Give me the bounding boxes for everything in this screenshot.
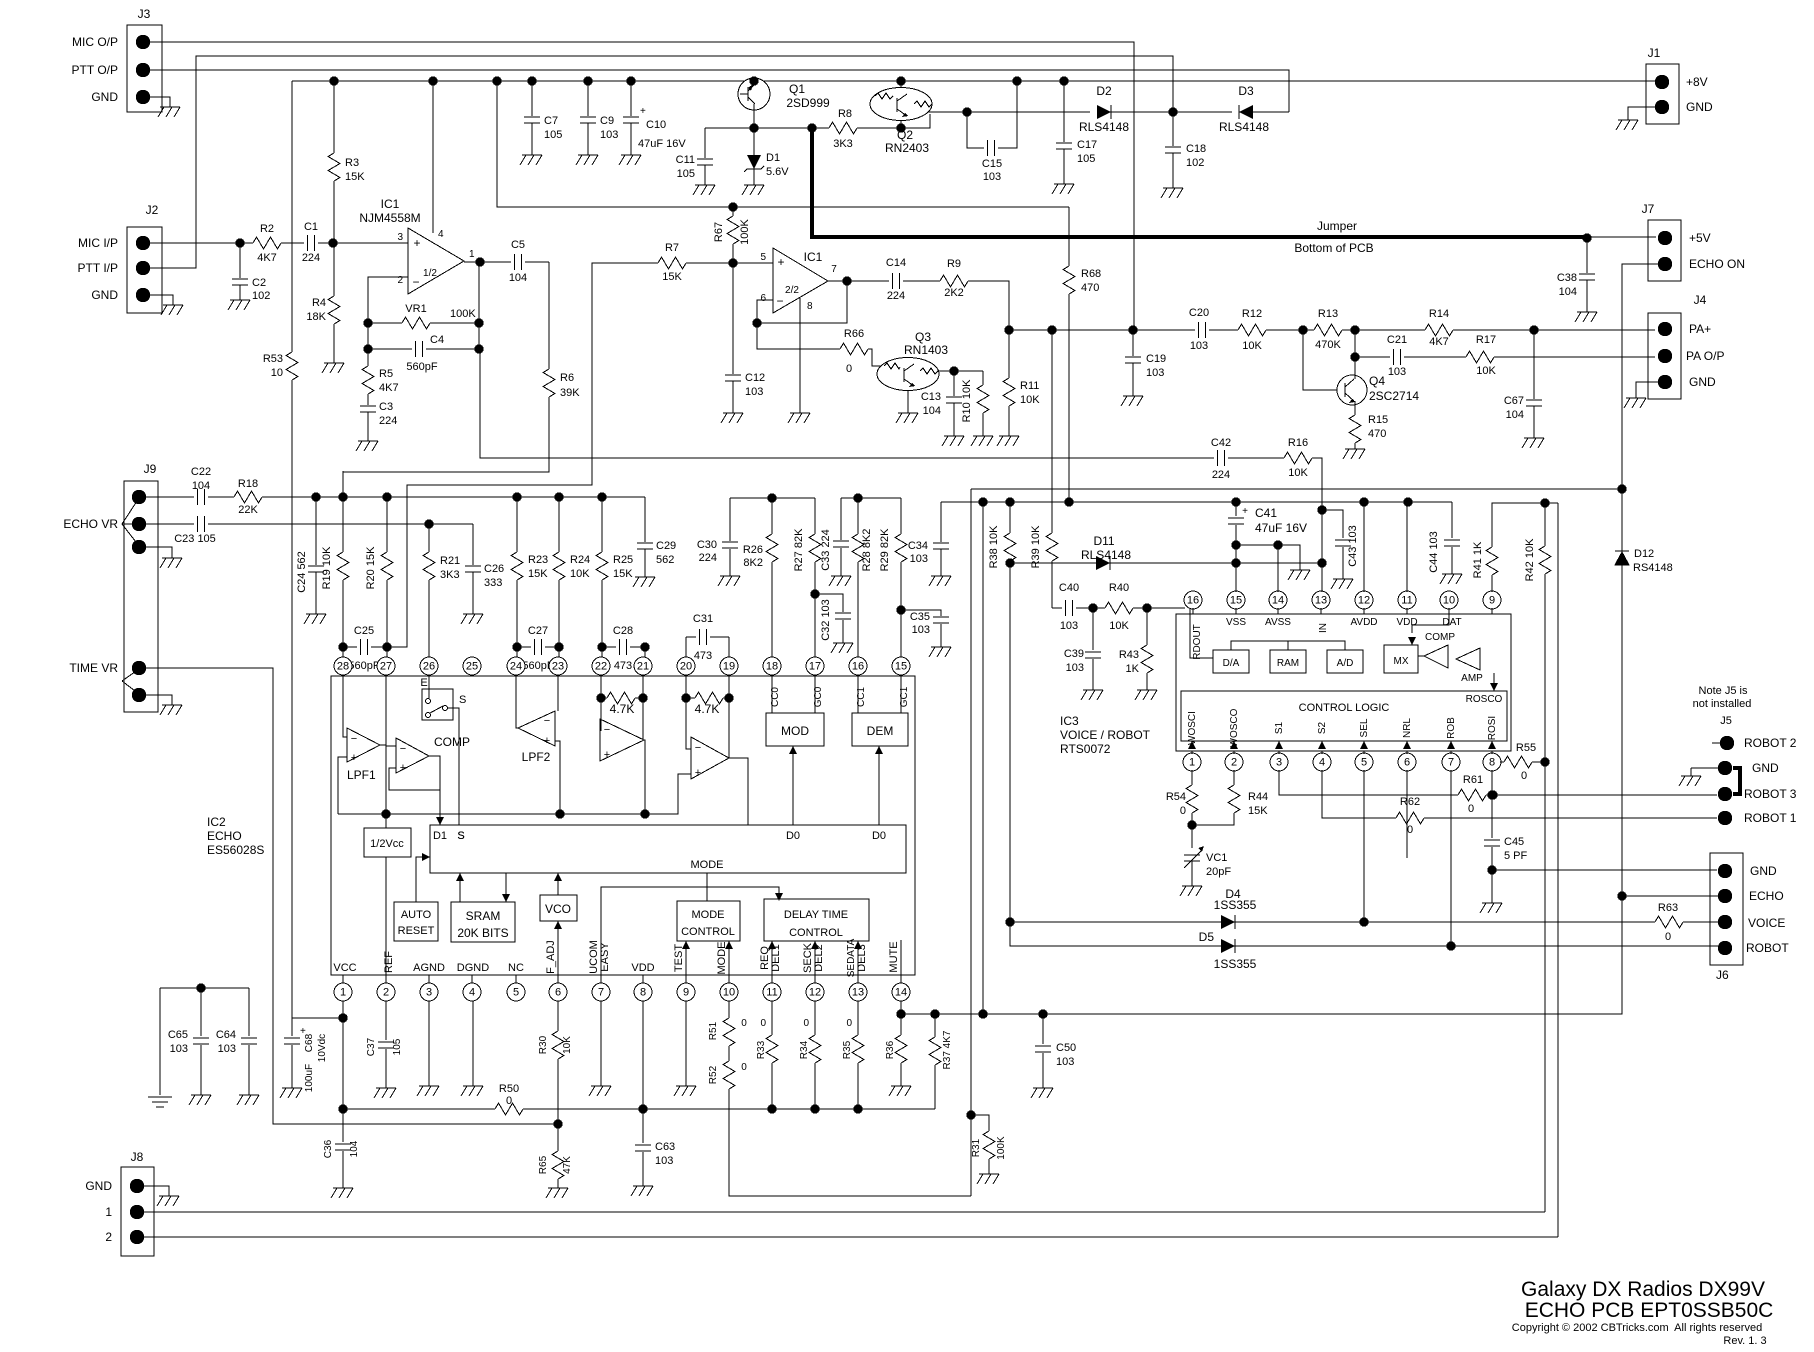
svg-text:C5: C5 [511, 239, 525, 251]
svg-text:R14: R14 [1429, 308, 1449, 320]
svg-text:104: 104 [509, 272, 527, 284]
svg-text:R34: R34 [799, 1040, 810, 1059]
svg-text:0: 0 [741, 1062, 747, 1073]
svg-text:−: − [695, 742, 701, 754]
svg-text:REF: REF [383, 951, 395, 973]
svg-text:R66: R66 [844, 328, 864, 340]
svg-text:224: 224 [699, 552, 717, 564]
svg-text:105: 105 [392, 1038, 403, 1055]
svg-text:ROBOT 2: ROBOT 2 [1744, 736, 1797, 750]
svg-text:R53: R53 [263, 353, 283, 365]
svg-text:Galaxy DX Radios DX99V: Galaxy DX Radios DX99V [1521, 1278, 1765, 1301]
svg-text:C18: C18 [1186, 143, 1206, 155]
svg-text:AUTO: AUTO [401, 909, 432, 921]
svg-text:MODE: MODE [692, 909, 725, 921]
svg-text:R11: R11 [1020, 380, 1039, 392]
svg-text:224: 224 [379, 415, 397, 427]
svg-text:S: S [457, 830, 464, 842]
svg-text:C27: C27 [528, 625, 548, 637]
svg-text:C32 103: C32 103 [820, 599, 832, 641]
svg-text:J9: J9 [144, 462, 157, 476]
svg-text:R17: R17 [1476, 334, 1496, 346]
svg-text:2SD999: 2SD999 [786, 96, 830, 110]
svg-text:R9: R9 [947, 258, 961, 270]
svg-text:SEL: SEL [1359, 718, 1370, 737]
svg-text:VDD: VDD [631, 962, 654, 974]
svg-text:102: 102 [1186, 157, 1204, 169]
svg-text:Rev. 1. 3: Rev. 1. 3 [1723, 1335, 1766, 1347]
svg-text:RAM: RAM [1277, 658, 1299, 669]
svg-text:R23: R23 [528, 554, 548, 566]
svg-text:0: 0 [1521, 770, 1527, 782]
svg-text:100K: 100K [450, 308, 476, 320]
svg-text:C3: C3 [379, 401, 393, 413]
svg-text:5 PF: 5 PF [1504, 850, 1528, 862]
svg-text:1: 1 [340, 987, 346, 999]
svg-text:R24: R24 [570, 554, 590, 566]
svg-text:C13: C13 [921, 391, 941, 403]
svg-text:C68: C68 [304, 1033, 315, 1052]
svg-text:AGND: AGND [413, 962, 445, 974]
svg-text:C2: C2 [252, 277, 266, 289]
svg-text:1/2: 1/2 [423, 268, 437, 279]
svg-text:224: 224 [1212, 469, 1230, 481]
svg-text:J2: J2 [146, 203, 159, 217]
svg-text:C33 224: C33 224 [820, 529, 832, 571]
svg-text:DGND: DGND [457, 962, 489, 974]
svg-text:R62: R62 [1400, 796, 1420, 808]
svg-text:R50: R50 [499, 1083, 519, 1095]
svg-text:RTS0072: RTS0072 [1060, 742, 1111, 756]
svg-text:C21: C21 [1387, 334, 1407, 346]
svg-text:R20 15K: R20 15K [365, 546, 377, 589]
svg-text:J6: J6 [1716, 968, 1729, 982]
svg-text:2: 2 [105, 1230, 112, 1244]
svg-text:103: 103 [1146, 367, 1164, 379]
svg-text:RN2403: RN2403 [885, 141, 929, 155]
svg-text:100K: 100K [996, 1136, 1007, 1160]
svg-text:J5: J5 [1720, 715, 1732, 727]
svg-text:103: 103 [655, 1155, 673, 1167]
svg-text:−: − [412, 275, 419, 289]
svg-text:C39: C39 [1064, 648, 1084, 660]
svg-text:R51: R51 [708, 1021, 719, 1040]
svg-text:105: 105 [1077, 153, 1095, 165]
svg-text:IN: IN [1318, 623, 1329, 633]
svg-text:+: + [351, 752, 357, 764]
svg-text:VSS: VSS [1226, 617, 1246, 628]
svg-text:D12: D12 [1634, 548, 1654, 560]
svg-text:ECHO ON: ECHO ON [1689, 257, 1745, 271]
svg-text:20pF: 20pF [1206, 866, 1231, 878]
svg-text:J3: J3 [138, 7, 151, 21]
svg-text:Q1: Q1 [789, 82, 805, 96]
svg-text:CC1: CC1 [856, 687, 867, 707]
svg-text:Jumper: Jumper [1317, 219, 1357, 233]
svg-text:7: 7 [598, 987, 604, 999]
svg-text:C10: C10 [646, 119, 666, 131]
svg-text:39K: 39K [560, 387, 580, 399]
svg-text:−: − [351, 733, 357, 745]
svg-text:22: 22 [595, 661, 607, 673]
svg-text:−: − [604, 724, 610, 736]
svg-text:100K: 100K [739, 218, 751, 244]
svg-text:102: 102 [252, 290, 270, 302]
svg-text:3K3: 3K3 [440, 569, 460, 581]
svg-text:S1: S1 [1274, 721, 1285, 734]
svg-text:3: 3 [397, 232, 403, 243]
svg-text:R38 10K: R38 10K [988, 525, 1000, 568]
svg-text:C26: C26 [484, 563, 504, 575]
svg-text:R41 1K: R41 1K [1472, 541, 1484, 578]
svg-text:R16: R16 [1288, 437, 1308, 449]
svg-text:103: 103 [218, 1043, 236, 1055]
svg-text:C44 103: C44 103 [1428, 531, 1440, 573]
svg-text:21: 21 [637, 661, 649, 673]
svg-text:C36: C36 [323, 1139, 334, 1158]
svg-text:0: 0 [846, 1018, 852, 1029]
svg-text:1/2Vcc: 1/2Vcc [370, 838, 404, 850]
svg-text:R61: R61 [1463, 774, 1483, 786]
svg-text:10K: 10K [1020, 394, 1040, 406]
svg-text:VCC: VCC [333, 962, 356, 974]
svg-text:22K: 22K [238, 504, 258, 516]
svg-text:MIC I/P: MIC I/P [78, 236, 118, 250]
svg-text:C35: C35 [910, 611, 930, 623]
svg-text:RLS4148: RLS4148 [1081, 548, 1131, 562]
svg-text:R68: R68 [1081, 268, 1101, 280]
svg-text:0: 0 [846, 363, 852, 375]
svg-text:10: 10 [723, 987, 735, 999]
svg-text:ECHO: ECHO [1749, 889, 1784, 903]
svg-text:562: 562 [656, 554, 674, 566]
svg-text:CC0: CC0 [770, 687, 781, 707]
svg-text:R15: R15 [1368, 414, 1388, 426]
svg-text:10K: 10K [1109, 620, 1129, 632]
svg-text:ROBOT: ROBOT [1746, 941, 1789, 955]
svg-text:16: 16 [852, 661, 864, 673]
svg-text:NRL: NRL [1402, 718, 1413, 738]
svg-text:ROSI: ROSI [1487, 716, 1498, 740]
svg-text:A/D: A/D [1337, 658, 1354, 669]
svg-text:−: − [400, 743, 406, 755]
svg-text:R3: R3 [345, 157, 359, 169]
svg-text:8: 8 [807, 301, 813, 312]
svg-text:MOD: MOD [781, 724, 809, 738]
svg-text:104: 104 [923, 405, 941, 417]
svg-text:4: 4 [438, 229, 444, 240]
svg-text:1K: 1K [1126, 663, 1140, 675]
svg-text:5: 5 [513, 987, 519, 999]
svg-text:MUTE: MUTE [888, 941, 900, 972]
svg-text:PTT O/P: PTT O/P [72, 63, 118, 77]
svg-text:RLS4148: RLS4148 [1219, 120, 1269, 134]
svg-text:GC1: GC1 [899, 686, 910, 707]
svg-text:11: 11 [766, 987, 777, 999]
svg-text:R40: R40 [1109, 582, 1129, 594]
svg-text:103: 103 [1190, 340, 1208, 352]
svg-text:470K: 470K [1315, 339, 1341, 351]
svg-text:8K2: 8K2 [743, 557, 763, 569]
svg-text:RESET: RESET [398, 925, 435, 937]
svg-text:Copyright © 2002 CBTricks.com: Copyright © 2002 CBTricks.com All rights… [1512, 1322, 1762, 1334]
svg-text:C40: C40 [1059, 582, 1079, 594]
svg-text:GND: GND [1689, 375, 1716, 389]
svg-text:ECHO: ECHO [207, 829, 242, 843]
svg-text:R29 82K: R29 82K [879, 528, 891, 571]
svg-text:0: 0 [741, 1018, 747, 1029]
svg-text:MODE: MODE [716, 942, 728, 975]
svg-text:15K: 15K [345, 171, 365, 183]
svg-text:R28 8K2: R28 8K2 [861, 529, 873, 572]
svg-text:104: 104 [1506, 409, 1524, 421]
svg-text:C42: C42 [1211, 437, 1231, 449]
svg-text:IC1: IC1 [804, 250, 823, 264]
svg-text:R12: R12 [1242, 308, 1262, 320]
svg-text:not installed: not installed [1693, 698, 1752, 710]
svg-text:C43 103: C43 103 [1347, 525, 1359, 567]
svg-text:GND: GND [91, 288, 118, 302]
svg-text:PA O/P: PA O/P [1686, 349, 1724, 363]
svg-text:3K3: 3K3 [833, 138, 853, 150]
svg-text:MIC O/P: MIC O/P [72, 35, 118, 49]
svg-text:F_ADJ: F_ADJ [545, 940, 557, 974]
svg-text:5: 5 [760, 252, 766, 263]
svg-text:C20: C20 [1189, 307, 1209, 319]
svg-text:R26: R26 [743, 544, 763, 556]
svg-text:15K: 15K [528, 568, 548, 580]
svg-text:103: 103 [600, 129, 618, 141]
svg-text:4.7K: 4.7K [610, 702, 635, 716]
svg-text:R65: R65 [538, 1155, 549, 1174]
svg-text:15K: 15K [662, 271, 682, 283]
svg-text:C30: C30 [697, 539, 717, 551]
svg-text:D1: D1 [766, 152, 780, 164]
svg-text:R8: R8 [838, 108, 852, 120]
svg-text:D0: D0 [786, 830, 800, 842]
svg-text:470: 470 [1081, 282, 1099, 294]
svg-text:R21: R21 [440, 555, 460, 567]
svg-text:−: − [544, 715, 550, 727]
svg-text:14: 14 [895, 987, 907, 999]
svg-text:105: 105 [544, 129, 562, 141]
svg-text:105: 105 [677, 168, 695, 180]
svg-text:0: 0 [1180, 805, 1186, 817]
svg-text:224: 224 [887, 290, 905, 302]
svg-text:4K7: 4K7 [1429, 336, 1449, 348]
svg-text:10K: 10K [1476, 365, 1496, 377]
svg-text:R43: R43 [1119, 649, 1139, 661]
svg-text:10K: 10K [1288, 467, 1308, 479]
svg-text:5.6V: 5.6V [766, 166, 789, 178]
svg-text:19: 19 [723, 661, 735, 673]
svg-text:NC: NC [508, 962, 524, 974]
svg-text:+: + [640, 106, 646, 117]
svg-text:C37: C37 [366, 1037, 377, 1056]
svg-text:0: 0 [1468, 803, 1474, 815]
svg-text:R5: R5 [379, 368, 393, 380]
svg-text:224: 224 [302, 252, 320, 264]
svg-text:MX: MX [1394, 656, 1409, 667]
svg-text:GND: GND [1750, 864, 1777, 878]
svg-text:ROSCO: ROSCO [1466, 694, 1503, 705]
svg-text:CONTROL: CONTROL [681, 926, 735, 938]
svg-text:2/2: 2/2 [785, 285, 799, 296]
svg-text:RLS4148: RLS4148 [1079, 120, 1129, 134]
svg-text:15K: 15K [1248, 805, 1268, 817]
svg-text:25: 25 [466, 661, 478, 673]
svg-text:R67: R67 [713, 222, 725, 242]
svg-text:R54: R54 [1166, 791, 1186, 803]
svg-text:CONTROL LOGIC: CONTROL LOGIC [1299, 702, 1390, 714]
svg-text:20K BITS: 20K BITS [457, 926, 508, 940]
svg-text:470: 470 [1368, 428, 1386, 440]
svg-text:10: 10 [1443, 595, 1455, 607]
svg-text:13: 13 [1315, 595, 1327, 607]
svg-text:R42 10K: R42 10K [1524, 538, 1536, 581]
svg-text:DAT: DAT [1442, 617, 1461, 628]
svg-text:103: 103 [745, 386, 763, 398]
svg-text:4: 4 [469, 987, 475, 999]
svg-text:R25: R25 [613, 554, 633, 566]
svg-text:560pF: 560pF [348, 660, 379, 672]
svg-text:24: 24 [510, 661, 522, 673]
svg-text:C28: C28 [613, 625, 633, 637]
svg-text:47uF 16V: 47uF 16V [638, 138, 686, 150]
svg-text:473: 473 [614, 660, 632, 672]
svg-text:+5V: +5V [1689, 231, 1711, 245]
svg-text:PA+: PA+ [1689, 322, 1711, 336]
svg-text:GND: GND [91, 90, 118, 104]
svg-text:TIME VR: TIME VR [69, 661, 118, 675]
svg-text:4: 4 [1319, 757, 1325, 769]
svg-text:+: + [1242, 506, 1248, 517]
svg-text:+: + [777, 255, 784, 269]
svg-text:C65: C65 [168, 1029, 188, 1041]
svg-text:103: 103 [1066, 662, 1084, 674]
svg-text:103: 103 [170, 1043, 188, 1055]
svg-text:20: 20 [680, 661, 692, 673]
svg-text:D3: D3 [1238, 84, 1254, 98]
svg-text:GC0: GC0 [813, 686, 824, 707]
svg-text:47K: 47K [562, 1156, 573, 1174]
svg-text:8: 8 [1489, 757, 1495, 769]
svg-text:0: 0 [1407, 824, 1413, 836]
svg-text:C64: C64 [216, 1029, 236, 1041]
svg-text:MODE: MODE [691, 859, 724, 871]
svg-text:3: 3 [426, 987, 432, 999]
svg-text:4K7: 4K7 [257, 252, 277, 264]
svg-text:4.7K: 4.7K [695, 702, 720, 716]
svg-text:12: 12 [1358, 595, 1370, 607]
svg-text:AVSS: AVSS [1265, 617, 1291, 628]
svg-text:17: 17 [809, 661, 821, 673]
svg-text:VCO: VCO [545, 902, 571, 916]
svg-text:C23 105: C23 105 [174, 533, 216, 545]
svg-text:10K: 10K [570, 568, 590, 580]
svg-text:R6: R6 [560, 372, 574, 384]
svg-text:C11: C11 [676, 154, 695, 166]
svg-text:R10 10K: R10 10K [961, 379, 973, 422]
svg-text:3: 3 [1276, 757, 1282, 769]
svg-text:PTT I/P: PTT I/P [78, 261, 118, 275]
svg-text:1SS355: 1SS355 [1214, 957, 1257, 971]
svg-text:C14: C14 [886, 257, 906, 269]
svg-text:100uF: 100uF [304, 1064, 315, 1092]
svg-text:333: 333 [484, 577, 502, 589]
svg-text:C9: C9 [600, 115, 614, 127]
svg-text:RN1403: RN1403 [904, 343, 948, 357]
svg-text:C25: C25 [354, 625, 374, 637]
svg-text:R44: R44 [1248, 791, 1268, 803]
svg-text:R31: R31 [971, 1138, 982, 1157]
svg-text:7: 7 [831, 264, 837, 275]
svg-text:C12: C12 [745, 372, 765, 384]
svg-text:+8V: +8V [1686, 75, 1708, 89]
svg-text:DEM: DEM [867, 724, 894, 738]
svg-text:1SS355: 1SS355 [1214, 898, 1257, 912]
svg-text:LPF1: LPF1 [347, 768, 376, 782]
svg-text:103: 103 [1060, 620, 1078, 632]
svg-text:R19 10K: R19 10K [321, 546, 333, 589]
svg-text:0: 0 [803, 1018, 809, 1029]
svg-text:R63: R63 [1658, 902, 1678, 914]
svg-text:C41: C41 [1255, 506, 1277, 520]
svg-text:9: 9 [1489, 595, 1495, 607]
svg-text:5: 5 [1361, 757, 1367, 769]
svg-text:D2: D2 [1096, 84, 1112, 98]
svg-text:R4: R4 [312, 297, 326, 309]
svg-text:+: + [604, 749, 610, 761]
svg-text:SRAM: SRAM [466, 909, 501, 923]
svg-text:RS4148: RS4148 [1633, 562, 1673, 574]
svg-text:GND: GND [1686, 100, 1713, 114]
svg-text:2SC2714: 2SC2714 [1369, 389, 1419, 403]
svg-text:AMP: AMP [1461, 673, 1483, 684]
svg-text:Bottom of PCB: Bottom of PCB [1294, 241, 1373, 255]
svg-text:Note J5 is: Note J5 is [1699, 685, 1748, 697]
svg-text:ROBOT 1: ROBOT 1 [1744, 811, 1797, 825]
svg-text:27: 27 [380, 661, 392, 673]
svg-text:0: 0 [506, 1095, 512, 1107]
svg-text:VR1: VR1 [405, 303, 426, 315]
svg-text:IC3: IC3 [1060, 714, 1079, 728]
svg-text:R37 4K7: R37 4K7 [942, 1030, 953, 1069]
svg-text:18: 18 [766, 661, 778, 673]
svg-text:LPF2: LPF2 [522, 750, 551, 764]
svg-text:ECHO VR: ECHO VR [63, 517, 118, 531]
svg-text:6: 6 [760, 293, 766, 304]
svg-text:14: 14 [1272, 595, 1284, 607]
svg-text:473: 473 [694, 650, 712, 662]
svg-text:DELAY TIME: DELAY TIME [784, 909, 848, 921]
svg-text:C1: C1 [304, 221, 318, 233]
svg-text:VOICE: VOICE [1748, 916, 1785, 930]
svg-text:RDOUT: RDOUT [1192, 624, 1203, 660]
svg-text:D11: D11 [1093, 534, 1114, 548]
svg-text:J8: J8 [131, 1150, 144, 1164]
svg-text:C38: C38 [1557, 272, 1577, 284]
svg-text:6: 6 [555, 987, 561, 999]
svg-text:104: 104 [192, 480, 210, 492]
svg-text:4K7: 4K7 [379, 382, 399, 394]
svg-text:COMP: COMP [1425, 632, 1455, 643]
svg-text:103: 103 [1056, 1056, 1074, 1068]
svg-text:13: 13 [852, 987, 864, 999]
svg-text:ECHO PCB EPT0SSB50C: ECHO PCB EPT0SSB50C [1525, 1299, 1774, 1322]
svg-text:C31: C31 [693, 613, 713, 625]
svg-text:103: 103 [1388, 366, 1406, 378]
